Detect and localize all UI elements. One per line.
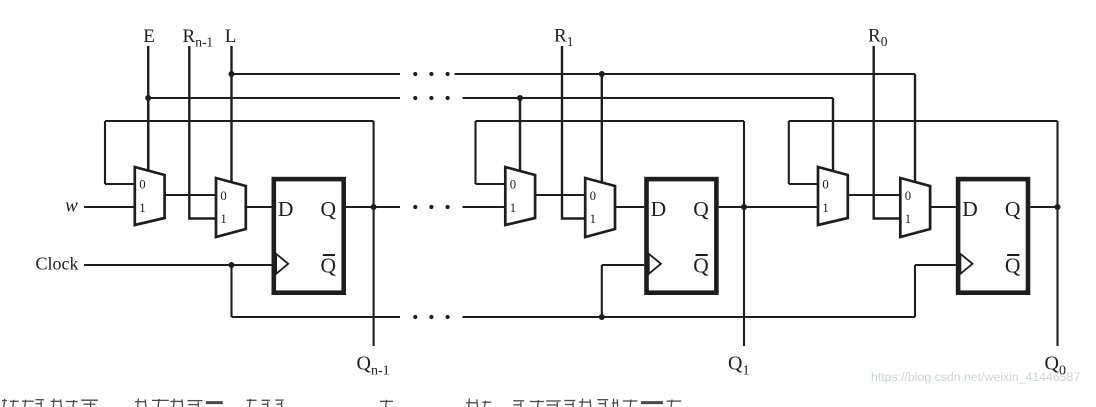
junction: L bus tap stage 2	[599, 71, 605, 77]
wire: clock distribution segment 2	[463, 316, 916, 318]
svg-text:Q: Q	[321, 197, 337, 221]
wire: clock rise stage 2	[601, 265, 603, 317]
D flip-flop FF1 (stage 1)	[274, 179, 344, 293]
wire: data line into stage 2 mux	[463, 206, 506, 208]
wire: mux 0-input stage 3	[789, 183, 818, 185]
svg-text:0: 0	[590, 189, 596, 203]
wire: L bus segment 2	[455, 73, 916, 75]
wire: U3a output to U3b 0-input	[848, 194, 901, 196]
svg-text:0: 0	[510, 178, 516, 192]
wire: E bus segment 2	[463, 97, 834, 99]
clock edge triangle (FF1)	[276, 254, 288, 274]
svg-text:0: 0	[905, 189, 911, 203]
wire: clock input line	[84, 264, 272, 266]
wire: Qn-1 vertical (feedback up / output down)	[373, 121, 375, 346]
svg-text:0: 0	[220, 189, 226, 203]
wire: feedback drop stage 1	[104, 121, 106, 184]
wire: Q1 to stage 3 mux	[744, 206, 818, 208]
wire: select E into U1a	[147, 98, 149, 171]
svg-text:Q: Q	[1005, 254, 1021, 278]
svg-text:1: 1	[590, 212, 596, 226]
wire: Q output stage 1	[346, 206, 374, 208]
wire: clock rise stage 3	[914, 265, 916, 317]
wire: L stem from label	[230, 46, 232, 74]
wire: clock distribution segment 1	[232, 316, 401, 318]
wire: select L into U2b	[601, 74, 603, 182]
svg-text:Clock: Clock	[36, 253, 79, 273]
clock edge triangle (FF2)	[649, 254, 661, 274]
wire: Q1 vertical (feedback up / output down)	[743, 121, 745, 346]
svg-text:Q: Q	[693, 197, 709, 221]
wire: select L into U1b	[230, 74, 232, 182]
svg-text:1: 1	[510, 201, 516, 215]
wire: R input elbow into U3b 1-input	[874, 46, 901, 219]
svg-text:L: L	[225, 26, 237, 47]
junction: Qn-1 node	[371, 204, 377, 210]
svg-text:Q: Q	[1005, 197, 1021, 221]
wire: U1b output to D input	[246, 206, 272, 208]
junction: clock branch stage 1	[229, 262, 235, 268]
junction: clock tap stage 2	[599, 314, 605, 320]
junction: Q0 node	[1055, 204, 1061, 210]
wire: mux 0-input stage 1	[105, 183, 135, 185]
svg-text:0: 0	[822, 178, 828, 192]
wire: E stem	[147, 46, 149, 171]
clock edge triangle (FF3)	[960, 254, 972, 274]
wire: feedback bus stage 1 (Qn-1 back to enable mux)	[105, 120, 374, 122]
wire: clock branch drop	[230, 265, 232, 317]
mux U1a (enable mux, stage 1)	[135, 167, 165, 225]
wire: U1a output to U1b 0-input	[165, 194, 216, 196]
mux U1b (load mux, stage 1)	[216, 178, 246, 237]
svg-text:D: D	[651, 197, 667, 221]
wire: feedback bus stage 3 (Q0 back to enable mux)	[789, 120, 1058, 122]
wire: Q0 vertical (feedback up / output down)	[1056, 121, 1058, 346]
svg-text:w: w	[65, 196, 78, 217]
svg-text:D: D	[962, 197, 978, 221]
svg-text:Q: Q	[321, 254, 337, 278]
wire: U2b output to D input	[615, 206, 644, 208]
ellipsis dots on data line	[413, 205, 417, 209]
wire: Q output stage 2	[719, 206, 744, 208]
wire: feedback drop stage 2	[474, 121, 476, 184]
wire: select E into U2a	[519, 98, 521, 171]
svg-text:1: 1	[139, 201, 145, 215]
wire: U3b output to D input	[930, 206, 956, 208]
ellipsis dots on E bus	[413, 96, 417, 100]
junction: E bus tap stage 2	[517, 95, 523, 101]
wire: select E into U3a	[832, 98, 834, 171]
mux U3b (load mux, stage 3)	[900, 178, 930, 237]
wire: w input to U1a 1-input	[84, 206, 135, 208]
D flip-flop FF3 (stage 3)	[958, 179, 1028, 293]
wire: Qn-1 to stage2 (segment before ellipsis)	[374, 206, 400, 208]
wire: mux 0-input stage 2	[476, 183, 506, 185]
svg-text:E: E	[143, 26, 155, 47]
D flip-flop FF2 (stage 2)	[647, 179, 717, 293]
mux U2a (enable mux, stage 2)	[505, 167, 535, 225]
junction: Q1 node	[741, 204, 747, 210]
wire: L bus segment 1	[232, 73, 401, 75]
wire: select L into U3b	[914, 74, 916, 182]
svg-text:1: 1	[905, 212, 911, 226]
svg-text:Q: Q	[693, 254, 709, 278]
ellipsis dots on clock distribution	[413, 315, 417, 319]
wire: R input elbow into U1b 1-input	[189, 46, 216, 219]
svg-text:0: 0	[139, 178, 145, 192]
junction: E onto E bus	[145, 95, 151, 101]
wire: Q output stage 3	[1030, 206, 1057, 208]
wire: R input elbow into U2b 1-input	[562, 46, 585, 219]
mux U2b (load mux, stage 2)	[585, 178, 615, 237]
svg-text:D: D	[278, 197, 294, 221]
junction: L onto L bus	[229, 71, 235, 77]
cropped caption glyph tops	[2, 399, 681, 407]
svg-text:1: 1	[220, 212, 226, 226]
svg-text:1: 1	[822, 201, 828, 215]
wire: feedback bus stage 2 (Q1 back to enable mux)	[476, 120, 745, 122]
wire: feedback drop stage 3	[788, 121, 790, 184]
wire: E bus segment 1	[148, 97, 400, 99]
wire: U2a output to U2b 0-input	[535, 194, 585, 196]
mux U3a (enable mux, stage 3)	[818, 167, 848, 225]
ellipsis dots on L bus	[413, 72, 417, 76]
